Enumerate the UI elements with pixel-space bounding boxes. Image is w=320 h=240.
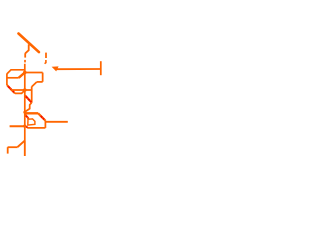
loop east vertical: [44, 120, 46, 128]
pentagon loop (roundabout): [28, 119, 35, 125]
corner H6 west: [37, 81, 43, 83]
annotation arrow shaft: [56, 68, 101, 70]
horizontal road H3 east from J1: [25, 72, 43, 74]
thick diagonal road (upper left): [19, 34, 39, 53]
junction J2: [23, 111, 26, 114]
vertical road V1 main: [24, 64, 26, 141]
vertical V3 down: [42, 73, 44, 82]
red-orange diagonal R1: [7, 85, 15, 93]
dashed road D2 (right of V1 top): [45, 53, 47, 58]
junction J4 dot: [23, 125, 26, 128]
bottom branch diagonal from V1: [18, 141, 25, 147]
bottom vertical V5: [7, 147, 9, 153]
spur from thick diagonal: [29, 43, 32, 45]
loop diagonal down-right: [38, 113, 45, 120]
junction J3 dot: [23, 88, 27, 92]
diagonal ramp into J1: [19, 73, 25, 78]
junction J1 dot: [23, 71, 27, 75]
dashed vertical road (tunnel) upper: [24, 53, 26, 57]
red-orange diagonal R3: [25, 114, 29, 118]
thick horizontal H10 east from J2: [25, 112, 38, 114]
horizontal road H5 with ramp to J3: [15, 90, 25, 93]
vertical road V2 (far left): [6, 74, 8, 85]
bottom horizontal H8: [8, 146, 18, 148]
horizontal road H4: [11, 89, 32, 91]
red tick on bottom-left connector: [26, 126, 27, 129]
red overlay on loop diagonal: [40, 115, 44, 119]
annotation arrow head: [52, 66, 59, 71]
annotation arrow terminal bar: [100, 61, 102, 75]
loop bottom road: [26, 126, 46, 128]
horizontal road H11: [10, 125, 27, 127]
red-orange diagonal R2: [25, 95, 32, 102]
V4 descender to J2: [25, 103, 32, 112]
vertical V4: [31, 87, 33, 103]
diagonal down to V4: [32, 82, 37, 87]
horizontal road H9 east: [45, 121, 67, 123]
horizontal road H1 with west ramp: [7, 70, 25, 74]
V1 lower tail: [24, 141, 26, 156]
horizontal road H2 with diagonal up to junction J1: [7, 77, 19, 79]
